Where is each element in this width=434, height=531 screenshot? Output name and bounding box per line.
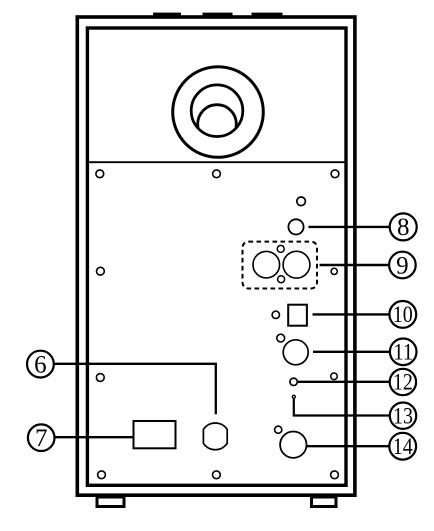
svg-text:10: 10 [393,302,413,327]
top vent dash right [252,13,283,19]
label 11 [390,339,417,366]
label 9 [389,252,416,280]
port middle circle [191,85,243,137]
item 9 left jack [253,251,280,278]
label 12 [390,369,416,395]
item 12 small hole [290,378,297,385]
item 9 small hole bottom [278,276,285,283]
callout line 14 [307,445,391,447]
item 7 rectangular cutout [134,421,176,448]
item 9 small hole top [277,245,284,252]
right foot [312,497,337,507]
panel separator line [89,161,344,163]
svg-text:9: 9 [396,252,409,279]
outer cabinet outline [77,17,355,495]
item 13 tiny hole [292,395,295,398]
callout line 11 [313,351,391,353]
port outer circle [173,67,264,158]
callout line 7 [55,436,134,438]
label 14 [389,433,416,460]
screw mid-left [97,267,105,275]
small hole above item 14 [275,426,282,433]
small hole above item 8 [297,197,306,206]
svg-text:13: 13 [393,403,413,428]
inner panel outline [87,28,346,485]
callout line 8 [309,226,391,228]
item 14 round connector [280,432,306,458]
svg-text:12: 12 [393,370,413,395]
item 9 right jack [283,251,310,278]
screw above line 12 [331,373,338,380]
item 8 connector circle [288,219,303,234]
label 7 [28,424,55,452]
screw top-left [96,170,104,178]
svg-text:7: 7 [35,425,48,452]
label 8 [390,213,417,241]
callout line 13 [294,399,391,416]
top vent dash left [153,13,181,19]
screw top-right [331,170,339,178]
svg-text:8: 8 [397,214,410,241]
svg-text:6: 6 [34,351,47,378]
screw top-center [213,170,221,178]
callout line 6 [54,364,216,415]
item 9 dashed enclosure [243,242,318,289]
screw bottom-left [98,471,106,479]
screw bottom-right [331,471,339,479]
screw right of dashed box [331,268,337,274]
small hole above item 11 [277,334,285,342]
item 10 square connector [288,305,307,326]
screw bottom-center [213,471,221,479]
item 6 keyed hole [203,423,227,450]
small hole left of item 10 [272,311,279,318]
svg-text:14: 14 [393,434,413,459]
port inner circle (clipped) [198,105,237,144]
callout line 12 [297,381,390,383]
label 6 [27,351,54,379]
label 10 [389,301,416,328]
left foot [97,497,124,507]
callout line 9 [320,264,391,266]
screw lower-left [96,374,104,382]
item 11 round connector [283,340,308,365]
svg-text:11: 11 [393,340,413,365]
label 13 [390,403,416,429]
callout line 10 [313,313,391,315]
top vent dash center [203,13,233,19]
